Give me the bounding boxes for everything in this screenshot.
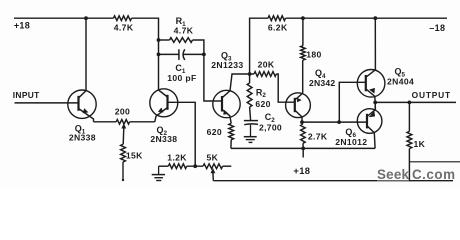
transistor Q2 emitter lead — [155, 108, 168, 122]
wire +18 rail left segment — [14, 17, 114, 19]
transistor Q6 collector lead (bottom) — [367, 126, 375, 149]
wire R1 right lead down to Q3 base — [193, 40, 214, 101]
transistor Q2 circle — [150, 89, 178, 117]
resistor 5K pot — [203, 164, 223, 169]
svg-text:4.7K: 4.7K — [114, 22, 134, 32]
transistor Q5 emitter arrow — [369, 88, 375, 94]
svg-text:180: 180 — [306, 50, 321, 60]
wire C1 right lead — [184, 53, 204, 55]
wire junction to 5K — [187, 165, 203, 167]
transistor Q4 base bar — [294, 98, 296, 112]
wire bottom feedback rail — [213, 180, 453, 182]
transistor Q4 circle — [286, 93, 311, 118]
svg-text:2,700: 2,700 — [259, 122, 282, 132]
svg-text:–18: –18 — [429, 23, 445, 33]
transistor Q1 circle — [68, 90, 96, 118]
wire -18 rail with corner to 20K node — [250, 18, 268, 74]
wire riser to Q5 base — [339, 82, 366, 122]
resistor 2.7K — [301, 124, 306, 143]
wire ground to 1.2K — [159, 165, 169, 167]
transistor Q5 collector lead (top) — [366, 18, 376, 77]
transistor Q1 emitter arrow — [83, 108, 89, 113]
transistor Q5 circle — [357, 70, 385, 98]
wire Q4 collector to Q6 base — [302, 121, 367, 123]
node junction Q5 base riser — [337, 120, 341, 124]
svg-text:OUTPUT: OUTPUT — [412, 90, 451, 100]
svg-text:620: 620 — [255, 99, 270, 109]
wire 1K bottom lead — [408, 149, 410, 181]
svg-text:2N342: 2N342 — [309, 78, 335, 88]
wire 20K left lead — [250, 73, 254, 75]
watermark SeekIC.com — [377, 167, 455, 182]
svg-text:2N338: 2N338 — [150, 134, 177, 144]
wire watermark box top edge — [409, 161, 460, 163]
wire Q5 emitter to Q6 collector — [374, 102, 376, 109]
svg-text:INPUT: INPUT — [13, 90, 40, 100]
transistor Q2 collector lead — [159, 90, 168, 97]
node junction Q1 collector at rail — [84, 16, 88, 20]
wire R2 top lead — [249, 74, 251, 83]
potentiometer wiper arrow 200 — [121, 123, 126, 128]
wire input lead to Q1 base — [15, 102, 79, 104]
resistor 200 pot — [116, 120, 129, 125]
transistor Q4 emitter arrow — [297, 98, 302, 102]
transistor Q6 emitter arrow — [369, 111, 375, 118]
resistor R1 4.7K — [170, 38, 193, 43]
transistor Q4 emitter lead (top) — [295, 93, 303, 100]
transistor Q2 base bar — [166, 95, 168, 110]
transistor Q5 emitter lead (bottom) — [366, 89, 375, 103]
wire Q1 emitter to 200 — [94, 121, 117, 123]
wire Q2 base to feedback divider — [168, 102, 196, 166]
svg-text:2N1012: 2N1012 — [335, 137, 367, 147]
svg-text:R2: R2 — [256, 87, 267, 99]
node junction C1 left — [157, 53, 161, 57]
wire -18 rail right segment — [286, 17, 448, 19]
resistor 620 Q3 emitter — [229, 123, 234, 139]
svg-text:15K: 15K — [126, 151, 143, 161]
svg-text:4.7K: 4.7K — [174, 26, 194, 36]
wire Q1 collector riser — [85, 18, 87, 90]
wire 1K top lead — [408, 102, 410, 131]
transistor Q1 emitter lead — [79, 109, 94, 122]
svg-text:+18: +18 — [14, 21, 30, 31]
node junction R1 left — [157, 38, 161, 42]
svg-text:+18: +18 — [293, 165, 310, 176]
wire +18 rail right segment and drop to Q2 collector — [132, 18, 159, 90]
node junction Q5 emitter output — [373, 101, 377, 105]
svg-text:100 pF: 100 pF — [167, 73, 196, 83]
svg-text:2N1233: 2N1233 — [211, 60, 243, 70]
resistor 1.2K — [168, 164, 186, 169]
wire R2 to C2 — [250, 107, 251, 120]
transistor Q1 base bar — [77, 96, 79, 111]
ground symbol G1 — [158, 166, 160, 174]
svg-text:1.2K: 1.2K — [167, 152, 187, 162]
wire 620 to bottom mid rail — [230, 140, 232, 149]
svg-text:2.7K: 2.7K — [308, 132, 328, 142]
wire 20K right lead to Q4 base — [276, 74, 295, 102]
wire bottom mid rail — [231, 147, 375, 149]
transistor Q2 emitter arrow — [158, 108, 164, 113]
svg-text:Seek: Seek — [377, 167, 410, 182]
wire 180 top lead — [302, 18, 304, 46]
wire 180 to Q4 emitter — [302, 60, 304, 93]
wire C1 left lead — [159, 53, 179, 55]
node junction 20K R2 Q3-collector — [248, 72, 252, 76]
resistor 180 — [301, 46, 306, 60]
node junction Q4 collector 2.7K — [300, 120, 304, 124]
transistor Q3 emitter arrow — [223, 110, 229, 115]
capacitor C1 plates — [178, 49, 180, 60]
wire output line — [375, 101, 456, 103]
svg-text:1K: 1K — [413, 139, 425, 149]
wire 200 to Q2 emitter — [130, 121, 155, 123]
resistor 1K — [407, 131, 412, 148]
ground symbol G2 — [250, 125, 252, 136]
capacitor C2 plates — [244, 120, 258, 122]
transistor Q6 circle — [357, 109, 382, 134]
transistor Q3 base lead — [214, 100, 222, 102]
resistor 20K — [254, 72, 276, 77]
node junction 1K top — [408, 101, 412, 105]
svg-text:20K: 20K — [258, 60, 275, 70]
transistor Q3 base bar — [221, 96, 223, 112]
node junction 1.2K 5K Q2-base — [193, 164, 197, 168]
wire 2.7K to mid rail — [302, 143, 304, 148]
resistor 15K — [121, 144, 126, 162]
resistor 4.7K (left rail) — [114, 16, 132, 21]
svg-text:200: 200 — [115, 107, 130, 117]
resistor 6.2K — [268, 16, 286, 21]
wire R1 left lead — [159, 39, 170, 41]
transistor Q6 emitter lead (top) — [367, 102, 375, 116]
wire 5K right lead (open) — [223, 165, 232, 167]
transistor Q3 emitter lead — [222, 110, 231, 124]
svg-text:2N404: 2N404 — [387, 77, 414, 87]
wire +18 stub — [302, 148, 304, 157]
transistor Q5 base bar — [365, 75, 367, 91]
node junction 180 at rail — [301, 16, 305, 20]
transistor Q3 collector lead — [222, 74, 250, 98]
potentiometer wiper arrow 5K — [211, 168, 216, 173]
svg-text:C.com: C.com — [412, 167, 455, 182]
svg-text:5K: 5K — [206, 152, 218, 162]
transistor Q6 base bar — [366, 114, 368, 129]
svg-text:620: 620 — [207, 127, 222, 137]
resistor R2 620 — [247, 83, 252, 107]
node junction +18 stub — [301, 147, 305, 151]
wire 15K bottom lead — [122, 162, 124, 180]
svg-text:2N338: 2N338 — [69, 133, 96, 143]
node junction Q5 collector at rail — [373, 16, 377, 20]
svg-text:6.2K: 6.2K — [268, 23, 288, 33]
transistor Q3 circle — [213, 90, 240, 117]
transistor Q4 collector lead (bottom) — [295, 110, 302, 122]
node junction C1 right — [202, 53, 206, 57]
transistor Q1 collector lead — [79, 91, 87, 98]
